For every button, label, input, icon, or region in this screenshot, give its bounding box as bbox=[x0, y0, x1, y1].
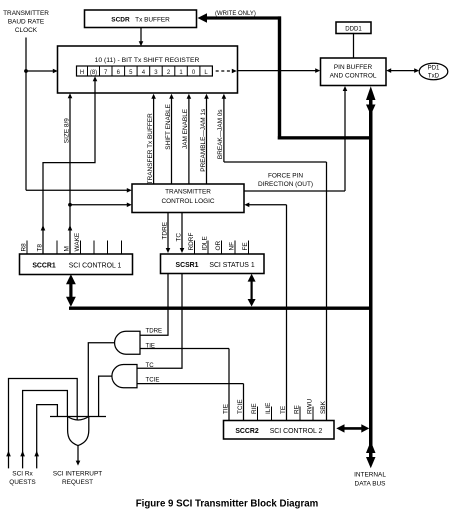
box SCSR1 SCI STATUS 1 bbox=[161, 254, 265, 274]
svg-text:QUESTS: QUESTS bbox=[9, 479, 35, 486]
svg-text:SCI INTERRUPT: SCI INTERRUPT bbox=[53, 471, 102, 478]
svg-text:SBK: SBK bbox=[320, 400, 327, 414]
wire SCDR to shift register bbox=[140, 28, 142, 43]
and-gate G2 TC/TCIE bbox=[112, 365, 137, 388]
svg-text:RWU: RWU bbox=[306, 398, 313, 414]
wire TCIE from G2 to SCCR2 bbox=[137, 384, 244, 421]
node TRANSMITTER BAUD RATE CLOCK bbox=[3, 10, 49, 34]
svg-text:SCDR: SCDR bbox=[111, 17, 130, 24]
junction M branch to control logic bbox=[68, 203, 72, 207]
svg-text:TIE: TIE bbox=[146, 342, 155, 349]
thick bus write-only arrow into SCDR bbox=[198, 13, 208, 22]
svg-text:DDD1: DDD1 bbox=[345, 25, 362, 32]
svg-text:CONTROL LOGIC: CONTROL LOGIC bbox=[161, 198, 214, 205]
wire serial out dashes and arrow bbox=[216, 69, 237, 74]
box TRANSMITTER CONTROL LOGIC bbox=[132, 184, 244, 213]
svg-text:TRANSFER Tx BUFFER: TRANSFER Tx BUFFER bbox=[147, 113, 154, 184]
labels SCCR1 bits R8 T8 M WAKE bbox=[20, 232, 81, 251]
wire SCI Rx request 3 bbox=[34, 405, 57, 469]
box PIN BUFFER AND CONTROL bbox=[321, 58, 387, 86]
svg-text:NF: NF bbox=[228, 242, 235, 251]
and-gate G1 TDRE/TIE bbox=[115, 331, 140, 354]
wire FORCE PIN DIRECTION (OUT) bbox=[244, 86, 347, 191]
svg-text:RDRF: RDRF bbox=[188, 233, 195, 251]
svg-text:3: 3 bbox=[154, 70, 158, 76]
box DDD1 bbox=[336, 22, 371, 34]
wire DDD1 to pin buffer bbox=[353, 34, 355, 59]
svg-text:0: 0 bbox=[192, 70, 196, 76]
svg-text:1: 1 bbox=[179, 70, 183, 76]
wire G2 output to OR gate bbox=[99, 376, 112, 416]
svg-text:SCCR2: SCCR2 bbox=[235, 428, 259, 435]
junction clock branch bbox=[24, 69, 28, 73]
svg-text:PIN BUFFER: PIN BUFFER bbox=[334, 64, 373, 71]
wire TC from control logic into SCSR1 bbox=[180, 213, 185, 254]
svg-text:Tx BUFFER: Tx BUFFER bbox=[135, 17, 170, 24]
svg-text:R8: R8 bbox=[20, 243, 27, 252]
svg-text:BAUD RATE: BAUD RATE bbox=[8, 19, 45, 26]
svg-text:TDRE: TDRE bbox=[161, 221, 168, 239]
wire shift register to pin buffer bbox=[238, 70, 317, 72]
thick data bus horizontal bbox=[69, 307, 373, 310]
svg-text:DIRECTION (OUT): DIRECTION (OUT) bbox=[258, 181, 313, 188]
wire M / SIZE 8/9 from SCCR1 to shift register bbox=[68, 93, 73, 254]
svg-text:M: M bbox=[63, 246, 70, 251]
thick bus vertical left segment bbox=[278, 16, 281, 139]
svg-text:RE: RE bbox=[293, 404, 300, 414]
svg-text:IDLE: IDLE bbox=[201, 235, 208, 250]
thick bus mid horizontal segment bbox=[278, 136, 370, 139]
wire SCI Rx request 1 bbox=[6, 379, 77, 469]
wire TC to gate G2 bbox=[138, 274, 183, 369]
svg-text:TCIE: TCIE bbox=[146, 376, 160, 383]
wire clock to transmitter control logic bbox=[26, 189, 128, 191]
double arrow SCCR1 to bus bbox=[66, 274, 76, 307]
or-gate SCI interrupt bbox=[50, 417, 106, 446]
wire T8 from SCCR1 to shift register bbox=[41, 76, 98, 254]
svg-text:SCI CONTROL 1: SCI CONTROL 1 bbox=[69, 263, 122, 270]
svg-text:TC: TC bbox=[146, 362, 155, 369]
wire baud rate clock vertical bbox=[25, 38, 27, 191]
wire clock to shift register bbox=[26, 70, 54, 72]
svg-text:FORCE PIN: FORCE PIN bbox=[268, 172, 303, 179]
wire BREAK JAM 0s from SBK bbox=[217, 94, 326, 421]
svg-text:SCI CONTROL 2: SCI CONTROL 2 bbox=[270, 428, 323, 435]
label INTERNAL DATA BUS bbox=[354, 472, 386, 488]
svg-text:TRANSMITTER: TRANSMITTER bbox=[3, 10, 49, 17]
box 10 (11)-bit Tx shift register bbox=[58, 46, 238, 93]
svg-text:T8: T8 bbox=[36, 244, 43, 252]
svg-text:(8): (8) bbox=[90, 70, 97, 76]
label SCI Rx QUESTS bbox=[9, 471, 35, 487]
ticks SCCR2 register bits bbox=[258, 407, 314, 421]
wire OR output SCI interrupt request bbox=[76, 445, 81, 465]
svg-text:BREAK—JAM 0s: BREAK—JAM 0s bbox=[217, 109, 224, 159]
labels SCSR1 bits bbox=[161, 221, 249, 250]
svg-text:SCI STATUS 1: SCI STATUS 1 bbox=[209, 262, 254, 269]
svg-text:SIZE 8/9: SIZE 8/9 bbox=[63, 118, 70, 143]
box SCCR2 SCI CONTROL 2 bbox=[224, 421, 335, 440]
wire TDRE to gate G1 bbox=[141, 274, 169, 336]
svg-text:WAKE: WAKE bbox=[74, 232, 81, 251]
svg-text:OR: OR bbox=[215, 240, 222, 250]
wire PREAMBLE JAM 1s bbox=[200, 94, 209, 184]
svg-text:TRANSMITTER: TRANSMITTER bbox=[165, 189, 211, 196]
label SCI INTERRUPT REQUEST bbox=[53, 471, 102, 487]
svg-text:L: L bbox=[204, 70, 208, 76]
svg-text:DATA BUS: DATA BUS bbox=[355, 481, 386, 488]
wire TRANSFER Tx BUFFER bbox=[147, 94, 156, 185]
svg-text:TxD: TxD bbox=[428, 72, 440, 79]
svg-text:AND CONTROL: AND CONTROL bbox=[330, 72, 377, 79]
svg-text:6: 6 bbox=[117, 70, 121, 76]
svg-text:Figure 9 SCI Transmitter Block: Figure 9 SCI Transmitter Block Diagram bbox=[136, 498, 319, 509]
svg-text:REQUEST: REQUEST bbox=[62, 479, 93, 486]
svg-text:JAM ENABLE: JAM ENABLE bbox=[182, 108, 189, 149]
svg-text:SCCR1: SCCR1 bbox=[32, 263, 56, 270]
svg-text:RIE: RIE bbox=[251, 403, 258, 414]
svg-text:TDRE: TDRE bbox=[146, 328, 163, 335]
box SCDR Tx Buffer bbox=[85, 10, 197, 28]
svg-text:TE: TE bbox=[280, 405, 287, 414]
wire TE to control logic bbox=[244, 203, 286, 421]
wire M to transmitter control logic bbox=[70, 204, 128, 206]
svg-text:(WRITE ONLY): (WRITE ONLY) bbox=[215, 11, 256, 17]
wire TIE from G1 to SCCR2 bbox=[140, 349, 229, 421]
svg-text:4: 4 bbox=[142, 70, 146, 76]
svg-text:TC: TC bbox=[175, 233, 182, 242]
node PD1 TxD pin bbox=[419, 63, 448, 79]
ticks SCCR1 register bits bbox=[27, 241, 122, 255]
svg-text:INTERNAL: INTERNAL bbox=[354, 472, 386, 479]
wire TDRE from control logic into SCSR1 bbox=[166, 213, 171, 254]
svg-text:TIE: TIE bbox=[222, 403, 229, 414]
svg-text:TCIE: TCIE bbox=[237, 399, 244, 414]
svg-text:FE: FE bbox=[242, 242, 249, 251]
wire pin buffer to PD1 pad (double arrow) bbox=[386, 68, 419, 73]
double arrow SCSR1 to bus bbox=[248, 274, 256, 307]
wire JAM ENABLE bbox=[182, 94, 191, 184]
svg-text:CLOCK: CLOCK bbox=[15, 27, 38, 34]
svg-text:7: 7 bbox=[104, 70, 108, 76]
wire SCI Rx request 2 bbox=[20, 391, 67, 469]
svg-text:SHIFT ENABLE: SHIFT ENABLE bbox=[165, 103, 172, 149]
thick internal data bus vertical bbox=[366, 86, 376, 468]
shift register cell row bbox=[77, 66, 213, 76]
svg-text:5: 5 bbox=[129, 70, 133, 76]
ticks SCSR1 status bits bbox=[195, 241, 249, 255]
box SCCR1 SCI CONTROL 1 bbox=[20, 254, 133, 275]
svg-text:2: 2 bbox=[167, 70, 171, 76]
svg-text:10 (11) - BIT Tx SHIFT REGISTE: 10 (11) - BIT Tx SHIFT REGISTER bbox=[95, 57, 200, 64]
svg-text:PREAMBLE—JAM 1s: PREAMBLE—JAM 1s bbox=[200, 109, 207, 172]
wire SHIFT ENABLE bbox=[165, 94, 174, 184]
labels SCCR2 bits bbox=[222, 398, 326, 414]
svg-text:H: H bbox=[80, 70, 84, 76]
svg-text:PD1: PD1 bbox=[428, 65, 440, 72]
svg-text:SCSR1: SCSR1 bbox=[176, 262, 199, 269]
svg-text:ILIE: ILIE bbox=[265, 402, 272, 414]
double arrow SCCR2 to internal data bus bbox=[336, 424, 369, 432]
svg-text:SCI Rx: SCI Rx bbox=[12, 471, 33, 478]
wire G1 output to OR gate bbox=[88, 343, 114, 417]
